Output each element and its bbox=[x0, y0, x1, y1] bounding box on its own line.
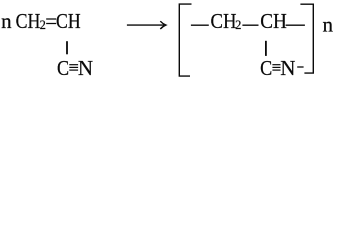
svg-text:C: C bbox=[260, 58, 272, 80]
bond dash 3 bbox=[286, 24, 305, 26]
svg-text:CH: CH bbox=[16, 11, 41, 34]
svg-text:C: C bbox=[57, 58, 69, 80]
single bond | (repeat unit) bbox=[265, 41, 267, 56]
bond dash after N bbox=[297, 66, 303, 68]
svg-text:n: n bbox=[1, 9, 12, 33]
svg-text:N: N bbox=[78, 56, 93, 80]
reaction arrow bbox=[127, 24, 164, 26]
triple bond (monomer) bbox=[69, 64, 78, 66]
svg-text:CH: CH bbox=[211, 10, 237, 33]
svg-text:CH: CH bbox=[56, 11, 81, 34]
bond dash 2 bbox=[242, 24, 258, 26]
triple bond (repeat unit) bbox=[272, 64, 280, 66]
svg-text:CH: CH bbox=[260, 10, 287, 33]
bond dash 1 bbox=[191, 24, 209, 26]
svg-text:N: N bbox=[280, 56, 295, 80]
svg-text:n: n bbox=[323, 12, 334, 36]
right bracket bbox=[300, 4, 313, 73]
svg-text:2: 2 bbox=[235, 18, 241, 32]
single bond | (monomer) bbox=[66, 41, 68, 54]
left bracket bbox=[179, 4, 191, 76]
